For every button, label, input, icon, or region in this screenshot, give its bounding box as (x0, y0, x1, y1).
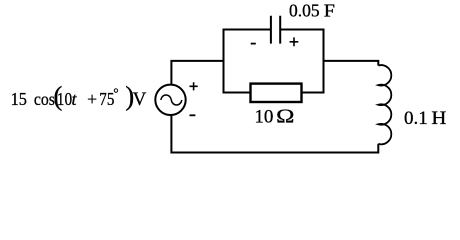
node A vertical wire (left side of parallel section) (223, 29, 225, 94)
svg-text:0.05: 0.05 (289, 1, 320, 21)
svg-text:V: V (133, 89, 147, 110)
source value label (11, 81, 147, 111)
svg-text:t: t (72, 89, 78, 109)
wire capacitor branch left (223, 29, 270, 31)
wire inductor bottom to source bottom (bottom rail) (171, 115, 378, 153)
svg-text:°: ° (113, 86, 118, 101)
wire node B to inductor (324, 61, 379, 66)
source polarity minus (190, 114, 196, 116)
capacitor C plates (271, 16, 280, 44)
svg-text:10: 10 (254, 107, 273, 128)
capacitor polarity minus (251, 43, 256, 45)
source polarity plus (190, 82, 198, 90)
wire source top to node A (171, 61, 223, 85)
inductor L coil (378, 65, 391, 144)
svg-text:Ω: Ω (276, 107, 294, 128)
svg-text:0.1: 0.1 (404, 108, 428, 129)
AC voltage source VS circle (155, 85, 185, 115)
AC voltage source sine wave (161, 95, 182, 105)
wire capacitor branch right (281, 29, 324, 31)
svg-text:cos: cos (34, 89, 55, 109)
svg-text:10: 10 (57, 89, 72, 109)
svg-text:+: + (87, 89, 97, 109)
node B vertical wire (right side of parallel section) (323, 29, 325, 94)
svg-text:H: H (431, 108, 446, 129)
resistor R box (251, 84, 302, 102)
svg-text:F: F (324, 1, 336, 21)
wire resistor branch left (223, 92, 250, 94)
svg-text:15: 15 (11, 89, 27, 109)
capacitor polarity plus (290, 37, 299, 46)
svg-text:75: 75 (99, 89, 114, 109)
wire resistor branch right (302, 92, 324, 94)
